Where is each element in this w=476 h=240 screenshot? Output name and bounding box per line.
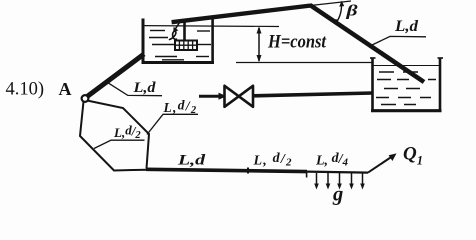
valve V1 (gate valve bowtie) [225,86,239,107]
tank T2 left wall [371,58,374,112]
svg-text:L,d: L,d [132,80,156,96]
svg-text:β: β [345,2,358,20]
tank T2 wall top caps [370,57,376,59]
parallel branch right L,d/2 [87,101,149,169]
lower reference line (water level of T2) [236,62,373,64]
strainer grid box in tank T1 [175,41,197,51]
svg-text:L,d: L,d [177,153,206,169]
distributed outflow arrows q [317,173,363,186]
water surface line tank T2 [374,65,440,67]
water dashes in tank T1 [149,31,211,60]
tank T2 bottom [371,109,442,112]
svg-text:L,d: L,d [394,18,418,35]
outlet arrow Q1 [368,157,392,173]
water dashes in tank T2 [376,72,436,105]
flow arrow into tank T1 [175,23,180,30]
parallel branch left L,d/2 [80,102,147,171]
tank T1 left wall [142,19,145,65]
leader line for label L,d (left) [108,83,162,96]
svg-text:H=const: H=const [267,32,326,53]
rising inclined pipe over tank T1 [172,6,311,23]
tank T2 right wall [439,58,442,112]
angle arc for beta [336,2,341,23]
thin extension reference line beyond apex [311,1,352,6]
leader for right branch label [147,114,198,134]
H dimension arrow (double headed) [258,28,260,61]
tank T1 right wall [211,17,214,63]
bottom pipe section L,d + L,d/2 [146,169,307,171]
script mark l in tank [170,31,177,39]
tank T1 bottom [142,61,215,64]
pipe from valve to tank T2 [253,93,373,96]
pipe L,d from node A up to tank T1 [88,54,145,96]
feed pipe dropping from inclined pipe into tank T1 [183,19,186,41]
water surface line of T1 continuing as upper reference line [145,25,280,28]
leader line for label L,d (right) [372,36,426,45]
bottom pipe section L,d/4 (thinner) [307,172,368,173]
svg-text:4.10): 4.10) [6,79,45,99]
flow arrowhead on valve pipe [219,93,227,100]
node A [82,95,89,102]
leader for left branch label [94,140,145,148]
junction tick / short arrow at start of L,d/4 [306,171,308,178]
descending pipe L,d to tank T2 [310,5,424,82]
short pipe into valve [199,95,225,98]
svg-text:g: g [332,184,343,206]
svg-text:A: A [59,79,72,99]
junction tick between L,d and L,d/2 [247,168,249,174]
